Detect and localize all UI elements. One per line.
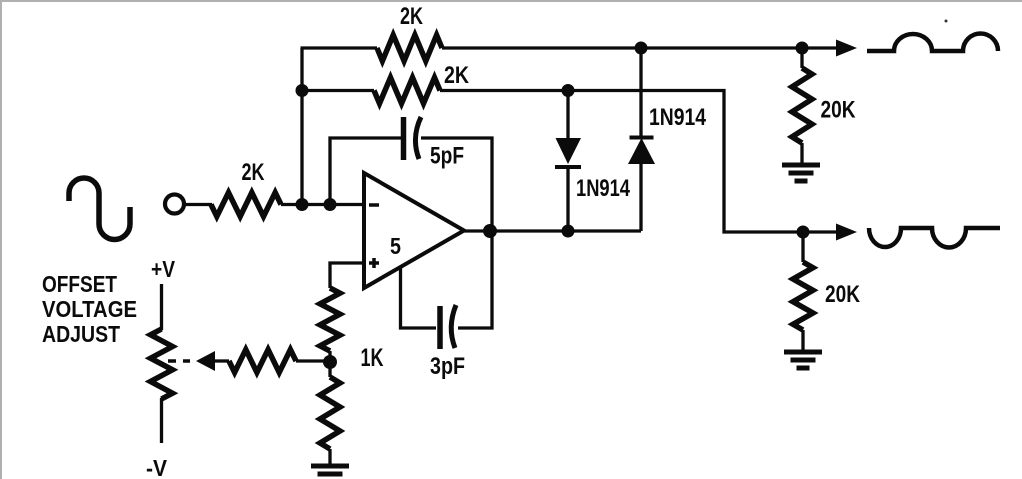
wire top rail right segment to arrow	[442, 46, 840, 49]
svg-text:1K: 1K	[361, 344, 384, 372]
op-amp plus input marker	[369, 261, 379, 265]
diode D2 1N914 (cathode top) wire upper	[639, 48, 642, 137]
svg-text:20K: 20K	[821, 97, 856, 124]
diode D2 wire lower	[639, 164, 642, 231]
wire 20K lower to ground	[801, 330, 804, 352]
ground (upper 20K)	[782, 163, 820, 168]
node dot top rail / diode D2	[635, 42, 648, 55]
resistor (lower half to ground)	[320, 377, 340, 449]
resistor 2K (top feedback)	[377, 35, 442, 61]
border top	[0, 0, 1022, 2]
svg-text:+V: +V	[151, 256, 175, 282]
resistor 20K (upper) wire from rail	[800, 48, 803, 68]
wire op-amp + input to 1K	[330, 263, 364, 288]
arrow shaft output 2	[803, 230, 838, 233]
wire input terminal to R 2K	[184, 203, 212, 206]
svg-text:2K: 2K	[400, 3, 423, 30]
wire to ground	[328, 449, 331, 466]
wiper arrow shaft	[213, 359, 229, 362]
wire 3pF loop left from op-amp underside	[401, 268, 437, 328]
wire vertical trunk from input node up to top rail	[300, 48, 303, 205]
ground (1K chain)	[311, 464, 349, 469]
wire +V to potentiometer	[160, 284, 163, 330]
svg-text:20K: 20K	[825, 281, 860, 308]
speck artifact	[945, 20, 948, 23]
svg-text:3pF: 3pF	[430, 353, 465, 380]
svg-text:1N914: 1N914	[649, 104, 707, 131]
wire op-amp output row	[464, 229, 641, 232]
node dot output / diode D1	[562, 225, 575, 238]
svg-text:VOLTAGE: VOLTAGE	[42, 296, 137, 322]
diode D1 1N914 (anode top) wire upper	[566, 91, 569, 140]
svg-text:5: 5	[390, 233, 401, 259]
wire 5pF loop: up, across, down to output	[330, 138, 401, 205]
svg-text:2K: 2K	[242, 159, 265, 186]
diode D1 wire lower	[566, 167, 569, 231]
resistor 20K (lower) wire from node	[801, 232, 804, 262]
resistor 2K (second feedback)	[374, 78, 440, 104]
node dot output row 2 / 20K	[797, 226, 810, 239]
diode D2 triangle	[628, 138, 655, 164]
op-amp U1 triangle	[364, 173, 464, 288]
diode D1 cathode bar	[555, 165, 581, 169]
arrow head output 2	[836, 224, 857, 241]
node dot at 5pF branch	[324, 198, 337, 211]
waveform output 2 (inverted humps)	[869, 228, 1000, 248]
diode D1 triangle	[556, 138, 582, 164]
wire 5pF right side down to output node	[421, 138, 492, 231]
wire 20K to ground	[800, 143, 803, 165]
node dot rail B at trunk	[296, 84, 309, 97]
svg-text:5pF: 5pF	[430, 143, 464, 170]
wire R2K to inverting input	[281, 203, 364, 206]
wire potentiometer to -V	[160, 398, 163, 443]
wiper arrow head (points left)	[196, 351, 215, 371]
wire top rail left segment	[301, 46, 378, 49]
svg-text:1N914: 1N914	[576, 175, 630, 202]
waveform output 1 (half-wave rectified humps)	[867, 34, 998, 52]
node dot rail B / diode D1	[562, 84, 575, 97]
border left	[0, 0, 2, 479]
arrow head output 1	[836, 40, 857, 57]
svg-text:2K: 2K	[444, 62, 470, 89]
node dot at input junction	[296, 198, 309, 211]
node dot 1K junction	[323, 355, 337, 369]
wire rail B to corner and down to output row 2	[440, 91, 803, 233]
diode D2 cathode bar	[630, 136, 654, 140]
node dot output feedback	[483, 224, 497, 238]
capacitor C 3pF plates	[437, 306, 443, 349]
potentiometer wiper dashes	[168, 359, 176, 363]
wire rail B left segment	[302, 89, 374, 92]
svg-text:ADJUST: ADJUST	[42, 321, 120, 347]
resistor 2K (input)	[211, 193, 281, 217]
wire resistor to 1K junction	[296, 359, 330, 362]
input terminal circle	[165, 195, 184, 214]
op-amp minus input marker	[369, 203, 379, 207]
ground (lower 20K)	[784, 350, 822, 355]
resistor 20K (upper)	[792, 68, 812, 143]
wire 3pF right side up to output node	[458, 231, 492, 328]
wire through junction	[328, 351, 331, 377]
svg-text:-V: -V	[146, 455, 167, 479]
input sine-wave source symbol	[69, 178, 130, 240]
capacitor C 5pF plates	[401, 117, 407, 160]
svg-text:OFFSET: OFFSET	[42, 271, 117, 297]
potentiometer body	[151, 329, 173, 399]
resistor 20K (lower)	[793, 262, 813, 330]
resistor (offset adjust, horizontal)	[229, 350, 296, 373]
resistor 1K (upper half)	[320, 288, 340, 351]
node dot top rail / 20K	[796, 42, 809, 55]
